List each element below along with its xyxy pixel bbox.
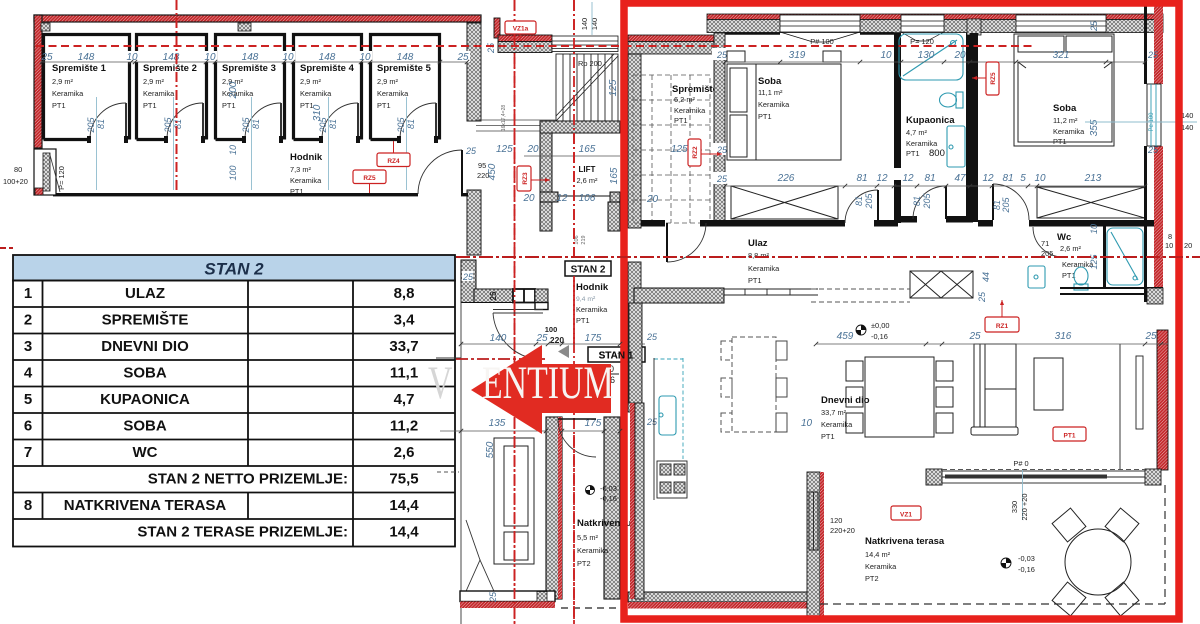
svg-text:5: 5 [1020,173,1026,184]
svg-text:RZ5: RZ5 [990,72,997,85]
svg-text:1: 1 [24,285,32,302]
svg-text:5,5 m²: 5,5 m² [577,533,598,542]
svg-text:PT1: PT1 [906,149,920,158]
left entry door [34,149,56,195]
STAN 2 label box [565,261,611,276]
level marker terrace [1001,554,1035,574]
natkriveni ulaz walls [546,417,562,599]
svg-text:10: 10 [880,50,892,61]
svg-text:2: 2 [24,312,32,329]
svg-text:4: 4 [24,365,33,382]
svg-text:25: 25 [716,174,728,184]
lift shaft [540,121,620,133]
hallway-living wall band [634,288,724,303]
svg-text:Spremište 3: Spremište 3 [222,63,276,74]
spremiste apt dashed shelving [633,75,710,223]
svg-text:14,4 m²: 14,4 m² [865,550,891,559]
svg-text:Keramika: Keramika [52,89,84,98]
soba2 bottom wall + wc top wall [978,220,993,227]
VZ1 label box [891,506,921,520]
svg-text:Keramika: Keramika [865,562,897,571]
svg-text:P# 100: P# 100 [810,37,833,46]
svg-text:Keramika: Keramika [674,106,706,115]
svg-text:-0,03: -0,03 [600,484,617,493]
svg-text:205: 205 [241,117,251,134]
svg-text:Rp 200: Rp 200 [578,59,602,68]
svg-text:4,7 m²: 4,7 m² [906,128,927,137]
dining table + chairs [846,357,953,437]
svg-text:STAN 2: STAN 2 [571,265,606,276]
svg-text:2,6 m²: 2,6 m² [577,176,598,185]
bathtub kupaonica [899,34,963,80]
svg-text:135: 135 [489,418,506,429]
svg-text:10: 10 [1089,224,1099,234]
svg-text:148: 148 [319,52,336,63]
svg-text:Dnevni dio: Dnevni dio [821,395,870,406]
svg-text:213: 213 [1084,173,1102,184]
wardrobe soba2 [1037,187,1145,218]
natkriveni ulaz door arc [558,419,596,457]
terrace left wall column [807,472,820,616]
svg-text:200: 200 [228,81,239,99]
exterior top wall (red hatch) [34,15,481,22]
svg-text:PT2: PT2 [865,574,879,583]
toilet kupaonica [940,92,964,108]
svg-text:220+20: 220+20 [830,526,855,535]
svg-text:220 +20: 220 +20 [1020,494,1029,521]
svg-text:Spremište 2: Spremište 2 [143,63,197,74]
room Spremiste 2 walls [137,35,207,140]
RZ1 label box [985,317,1019,332]
svg-text:25: 25 [488,591,498,603]
svg-text:9,4 m²: 9,4 m² [576,296,596,303]
apartment top dim chain [789,20,1099,61]
svg-text:25: 25 [1089,20,1099,32]
svg-text:459: 459 [837,331,854,342]
svg-text:310: 310 [312,104,323,121]
svg-text:25: 25 [462,272,474,282]
svg-text:11,2 m²: 11,2 m² [1053,116,1078,125]
svg-text:Keramika: Keramika [577,546,609,555]
svg-text:14,4: 14,4 [389,497,419,514]
svg-text:12: 12 [982,173,994,184]
svg-text:Wc: Wc [1057,232,1071,243]
svg-text:STAN 2: STAN 2 [204,260,264,279]
svg-text:11,2: 11,2 [390,418,418,435]
red dashed overlay lines (drawn above walls) [36,45,1035,47]
svg-text:120: 120 [830,516,842,525]
soba2 left wall [970,33,978,222]
svg-text:7: 7 [24,444,32,461]
kitchen stove [657,461,687,498]
svg-text:Spremište 5: Spremište 5 [377,63,432,74]
svg-text:VZ1a: VZ1a [513,26,529,33]
svg-text:3,4: 3,4 [394,312,416,329]
svg-text:STAN 1: STAN 1 [599,351,634,362]
svg-text:205: 205 [922,193,932,210]
corridor bottom wall [53,193,418,196]
svg-text:20: 20 [646,194,659,205]
svg-text:WC: WC [133,444,158,461]
svg-text:25: 25 [1147,50,1159,60]
rotated door dims [86,117,416,134]
svg-text:205: 205 [396,117,406,134]
svg-text:20: 20 [522,193,535,204]
teal witness lines [97,97,407,190]
stan1 kitchen cabinets [494,438,534,564]
svg-text:100: 100 [545,325,558,334]
PT1 label box [1053,427,1086,441]
svg-text:81: 81 [854,196,864,206]
svg-text:95: 95 [478,161,486,170]
wardrobe soba1 [731,186,838,219]
svg-text:Keramika: Keramika [906,139,938,148]
svg-text:165: 165 [609,167,620,184]
svg-text:25: 25 [977,291,987,303]
svg-text:81: 81 [406,119,416,129]
svg-text:DNEVNI DIO: DNEVNI DIO [101,338,189,355]
svg-text:8,8: 8,8 [394,285,415,302]
svg-text:Keramika: Keramika [758,100,790,109]
svg-text:125: 125 [1089,254,1099,270]
svg-text:25: 25 [1144,331,1157,342]
level marker ulaz [837,321,890,342]
svg-text:20: 20 [1184,241,1192,250]
svg-text:25: 25 [486,42,496,54]
stair window [552,36,618,52]
terrace left sliding door [809,492,818,550]
gray column blocks [41,23,50,31]
svg-text:PT1: PT1 [576,316,590,325]
svg-text:12: 12 [876,173,888,184]
RZ4 label box [377,153,410,167]
svg-text:2,6 m²: 2,6 m² [1060,244,1081,253]
svg-text:PT1: PT1 [758,112,772,121]
soba1 left wall column [714,33,725,221]
svg-text:81: 81 [856,173,867,184]
svg-text:Kupaonica: Kupaonica [906,115,955,126]
svg-text:LIFT: LIFT [579,165,596,174]
svg-text:33,7 m²: 33,7 m² [821,408,847,417]
grid rows [13,281,455,547]
svg-text:16x17,4=28: 16x17,4=28 [501,105,507,131]
svg-text:10: 10 [801,418,813,429]
svg-text:Hodnik: Hodnik [576,282,609,293]
window soba2 top [1016,15,1106,32]
svg-text:81: 81 [912,196,922,206]
svg-text:RZ4: RZ4 [387,158,400,165]
dashed table variant [721,337,776,432]
svg-text:-0,16: -0,16 [600,494,617,503]
door arcs of rooms 1-5 [90,103,436,139]
WC bathtub [1107,228,1143,285]
svg-text:2,9 m²: 2,9 m² [300,77,321,86]
WC fixtures [1028,266,1088,290]
kupaonica bottom wall + door [894,216,917,223]
svg-text:PT1: PT1 [143,101,157,110]
svg-text:7,3 m²: 7,3 m² [290,165,311,174]
row texts [24,285,419,541]
dim chain mid 140/25/220/175 [490,325,602,345]
svg-text:Soba: Soba [1053,103,1077,114]
svg-text:33,7: 33,7 [389,338,418,355]
svg-text:81: 81 [173,119,183,129]
svg-text:-0,16: -0,16 [871,332,888,341]
stan1 corridor door leaf + arc [493,310,543,358]
red dash-dot horizontal line y258 [456,256,1200,258]
svg-text:PT1: PT1 [52,101,66,110]
svg-text:ENTIUM: ENTIUM [482,357,614,409]
room Spremiste 3 walls [216,35,285,140]
svg-text:106: 106 [579,193,596,204]
right gray column of left block [467,23,481,121]
red dashed line top [36,45,1035,47]
room Spremiste 4 walls [294,35,362,140]
svg-text:226: 226 [777,173,795,184]
svg-text:PT1: PT1 [1064,433,1076,440]
terrace dashed boundary [820,485,1165,604]
svg-text:Spremište 4: Spremište 4 [300,63,355,74]
STAN 1 label box [588,347,645,362]
east wall living [1119,344,1121,469]
svg-text:800: 800 [929,148,945,159]
stan1 closet diagonals [463,560,497,598]
svg-text:148: 148 [242,52,259,63]
svg-text:STAN 2 NETTO PRIZEMLJE:: STAN 2 NETTO PRIZEMLJE: [148,471,348,488]
stan1 bottom wall [460,591,555,602]
svg-text:125: 125 [671,144,688,155]
window kupaonica top [901,15,944,41]
svg-text:165: 165 [579,144,596,155]
svg-text:25: 25 [968,331,981,342]
sofa [971,344,1018,435]
room Spremiste 1 walls [44,35,130,140]
svg-text:140: 140 [590,18,599,30]
gray arrow glyph [617,349,629,358]
svg-text:10: 10 [1165,241,1173,250]
svg-text:SOBA: SOBA [123,365,167,382]
svg-text:47: 47 [954,173,966,184]
svg-text:8: 8 [1168,232,1172,241]
svg-text:Keramika: Keramika [576,305,608,314]
svg-text:25: 25 [646,332,658,342]
stan1 corridor walls [461,260,476,303]
VZ1a label box [505,21,536,34]
svg-text:25: 25 [646,417,658,427]
svg-text:PT1: PT1 [674,116,688,125]
svg-text:-0,03: -0,03 [1018,554,1035,563]
svg-text:STAN 2 TERASE PRIZEMLJE:: STAN 2 TERASE PRIZEMLJE: [137,524,348,541]
terrace round table [1052,508,1139,616]
exterior left wall (red hatch) [34,15,42,148]
svg-text:±0,00: ±0,00 [871,321,889,330]
kupaonica walls [894,33,901,168]
svg-text:25: 25 [716,50,728,60]
kitchen counter [654,358,683,459]
spremiste rooms group [44,35,440,140]
svg-text:ULAZ: ULAZ [125,285,165,302]
svg-text:25: 25 [489,291,498,300]
svg-text:175: 175 [585,333,602,344]
apartment top wall red+gray [628,14,1163,54]
svg-text:Keramika: Keramika [300,89,332,98]
RZ2 label box rotated [688,139,701,166]
svg-text:106: 106 [574,235,580,244]
dim ticks [40,60,469,64]
svg-text:10: 10 [228,145,238,155]
svg-text:125: 125 [496,144,513,155]
svg-text:316: 316 [1055,331,1072,342]
svg-text:148: 148 [397,52,414,63]
svg-text:12: 12 [902,173,914,184]
svg-text:140: 140 [1181,111,1193,120]
svg-text:140: 140 [490,333,507,344]
svg-text:330: 330 [1010,501,1019,513]
kitchen west wall [629,303,642,403]
red dash-dot vertical line left block [176,0,178,193]
svg-text:V: V [428,357,453,409]
upper wall of stair hall [498,35,552,42]
svg-text:11,1: 11,1 [390,365,418,382]
svg-text:219: 219 [581,235,587,244]
svg-text:P= 120: P= 120 [910,37,934,46]
svg-text:PT1: PT1 [821,432,835,441]
spremiste apt door [641,220,665,227]
soba1 walls [725,32,780,35]
svg-text:PT1: PT1 [377,101,391,110]
right window soba2 [1147,84,1161,146]
wall below WC [1060,287,1163,289]
svg-text:205: 205 [864,193,874,210]
svg-text:44: 44 [981,272,991,282]
svg-text:25: 25 [1147,145,1159,155]
apartment mid dim chain [777,173,1102,184]
svg-text:14,4: 14,4 [389,524,419,541]
svg-text:PT1: PT1 [1053,137,1067,146]
svg-text:SPREMIŠTE: SPREMIŠTE [102,311,189,329]
svg-text:81: 81 [96,119,106,129]
svg-text:148: 148 [78,52,95,63]
svg-text:100+20: 100+20 [3,177,28,186]
svg-text:321: 321 [1053,50,1070,61]
svg-text:2,9 m²: 2,9 m² [52,77,73,86]
svg-text:PT1: PT1 [748,276,762,285]
room labels [52,63,432,110]
svg-text:P= 120: P= 120 [57,166,66,190]
svg-text:100: 100 [228,165,238,180]
terrace top wall / sliding door [926,469,942,485]
svg-text:20: 20 [526,144,539,155]
svg-text:10: 10 [1034,173,1046,184]
svg-text:KUPAONICA: KUPAONICA [100,391,190,408]
svg-text:PT2: PT2 [577,559,591,568]
svg-text:RZ2: RZ2 [692,146,699,159]
svg-text:RZ5: RZ5 [363,175,376,182]
svg-text:2,6: 2,6 [394,444,415,461]
svg-text:140: 140 [1181,123,1193,132]
room Spremiste 5 walls [371,35,440,140]
svg-text:Keramika: Keramika [377,89,409,98]
svg-text:NATKRIVENA TERASA: NATKRIVENA TERASA [64,497,227,514]
WC door arc [1033,227,1063,257]
svg-text:Soba: Soba [758,76,782,87]
stair landing lines [476,120,556,131]
svg-text:5: 5 [24,391,32,408]
svg-text:81: 81 [251,119,261,129]
svg-text:71: 71 [1041,239,1049,248]
svg-text:Spremište 1: Spremište 1 [52,63,107,74]
level marker stan1 [586,484,617,503]
bed soba2 [1014,34,1114,146]
svg-text:6,2 m²: 6,2 m² [674,95,695,104]
shaft below lift [540,202,552,231]
svg-text:220: 220 [477,171,489,180]
RZ5 apt label box rotated [986,62,999,95]
svg-text:4,7: 4,7 [394,391,415,408]
svg-text:VZ1: VZ1 [900,512,912,519]
svg-text:6: 6 [24,418,32,435]
dimension chain top [126,51,470,62]
svg-text:205: 205 [86,117,96,134]
door sill blocks [87,136,438,143]
red arrow [471,345,611,434]
svg-text:140: 140 [580,18,589,30]
svg-text:80: 80 [14,165,22,174]
washbasin kupaonica [947,126,965,167]
svg-text:8,8 m²: 8,8 m² [748,251,769,260]
svg-text:RZ3: RZ3 [522,172,529,185]
svg-text:81: 81 [328,119,338,129]
svg-text:11,1 m²: 11,1 m² [758,88,783,97]
header [13,255,455,281]
svg-text:205: 205 [1001,197,1011,214]
RZ5 label box [353,170,386,184]
svg-text:81: 81 [924,173,935,184]
svg-text:-0,16: -0,16 [1018,565,1035,574]
svg-text:Hodnik: Hodnik [290,152,323,163]
RZ3 label box rotated [517,166,531,191]
svg-text:75,5: 75,5 [389,471,418,488]
window soba1 top [780,15,860,42]
svg-text:Keramika: Keramika [290,176,322,185]
svg-text:2,9 m²: 2,9 m² [377,77,398,86]
soba1 door [845,190,878,223]
svg-text:20: 20 [953,50,966,61]
staircase treads [556,54,618,121]
svg-text:Ulaz: Ulaz [748,238,768,249]
svg-text:RZ1: RZ1 [996,323,1009,330]
svg-text:25: 25 [465,146,477,156]
svg-text:130: 130 [918,50,935,61]
svg-text:125: 125 [608,79,619,96]
svg-text:12: 12 [556,193,568,204]
svg-text:8: 8 [24,497,32,514]
step wall red vertical [494,18,500,38]
soba2 door [993,184,1029,220]
svg-text:Keramika: Keramika [143,89,175,98]
svg-text:319: 319 [789,50,806,61]
apartment left wall strip [628,54,641,228]
svg-text:81: 81 [1002,173,1013,184]
bed soba1 [727,51,841,160]
svg-text:PT1: PT1 [222,101,236,110]
svg-text:3: 3 [24,338,32,355]
svg-text:2,9 m²: 2,9 m² [143,77,164,86]
svg-text:Keramika: Keramika [821,420,853,429]
corridor right door [418,150,462,194]
svg-text:205: 205 [163,117,173,134]
soba1 bottom wall [708,220,845,227]
